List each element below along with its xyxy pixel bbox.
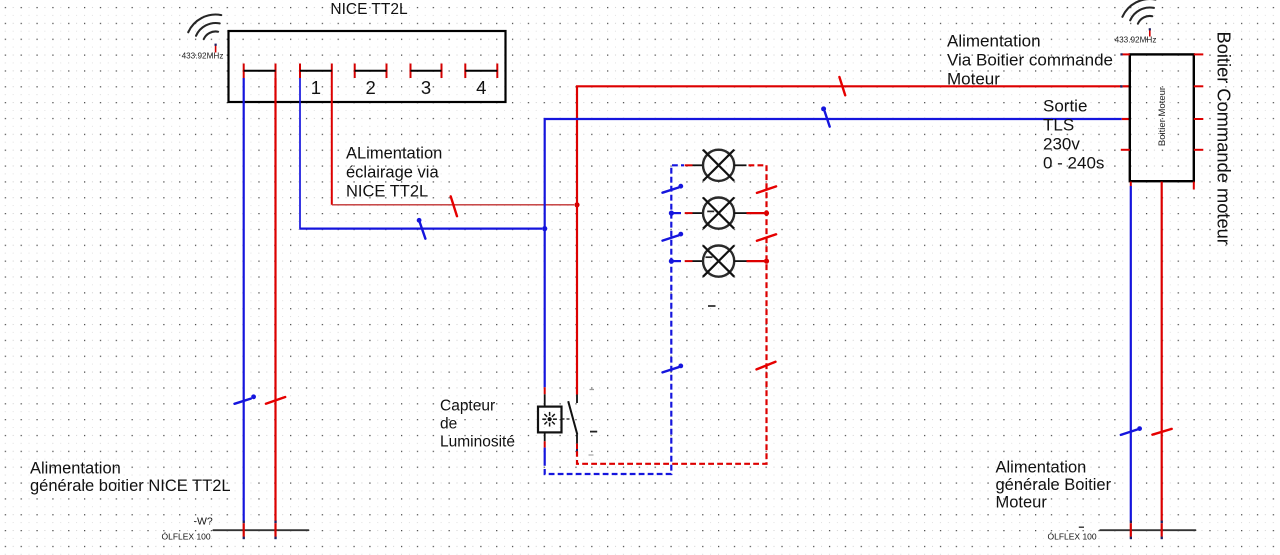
switch mark blue (bottom left) [235, 399, 251, 404]
svg-text:Moteur: Moteur [947, 70, 1000, 89]
terminal stub bottom right [1193, 182, 1195, 190]
wire red dashed return (switch to lamp bus) [577, 165, 767, 464]
node junction blue (544.7,228.6) [542, 226, 547, 231]
svg-text:433.92MHz: 433.92MHz [1115, 36, 1157, 45]
cable conductor mark red wire [274, 521, 276, 524]
terminal 2 [355, 64, 387, 99]
cable conductor mark red wire [1161, 521, 1163, 524]
switch mark blue (on wire y=228.6) [420, 222, 426, 239]
switch mark red R1 (lamp bus) [757, 186, 776, 193]
wire red main L (577,86.3) to motor box [577, 86, 1121, 394]
switch Q1 contact (sensor controlled) [576, 395, 578, 404]
wire blue terminal1 to sensor bus [299, 78, 301, 228]
switch pin marks [590, 389, 595, 391]
terminal stub right 3 [1194, 118, 1204, 120]
svg-text:230v: 230v [1043, 135, 1080, 154]
svg-text:Alimentation: Alimentation [996, 459, 1087, 477]
svg-text:NICE TT2L: NICE TT2L [330, 1, 408, 18]
lamp L1 [685, 150, 747, 181]
switch mark red R2 (lamp bus) [757, 234, 776, 241]
wire blue main (544.7,119) to motor box [545, 119, 1122, 387]
svg-text:ÓLFLEX 100: ÓLFLEX 100 [162, 532, 211, 542]
svg-text:ALimentation: ALimentation [346, 145, 442, 163]
terminal stub left lower [1121, 149, 1130, 151]
svg-text:Alimentation: Alimentation [947, 32, 1041, 51]
terminal pair 0 [244, 64, 276, 79]
svg-text:de: de [440, 416, 457, 433]
svg-text:1: 1 [311, 77, 321, 98]
switch mark red (bottom left) [266, 397, 285, 404]
wire blue supply motor (x=1130.8) [1130, 182, 1132, 186]
terminal stub left top [1122, 53, 1130, 55]
antenna A1 feed tick [215, 44, 217, 52]
terminal stub right 1 [1194, 53, 1204, 55]
svg-text:Boitier Moteur: Boitier Moteur [1157, 87, 1168, 146]
svg-text:Capteur: Capteur [440, 398, 495, 415]
node junction red lamp L3 [764, 259, 769, 264]
svg-text:générale boitier NICE TT2L: générale boitier NICE TT2L [30, 477, 231, 495]
cable conductor mark blue wire [243, 521, 245, 524]
wire blue supply NICE (vertical x=243.7) [243, 78, 245, 521]
antenna A2 feed tick [1149, 29, 1151, 37]
wire blue dashed return (sensor to lamp bus) [545, 165, 684, 474]
lamp L3 [671, 246, 764, 277]
terminal stub right 2 [1194, 85, 1204, 87]
wire red supply NICE (vertical x=275.5) [274, 78, 276, 521]
node junction red lamp L2 [764, 211, 769, 216]
svg-text:générale Boitier: générale Boitier [996, 476, 1112, 494]
box Boitier Moteur [1130, 54, 1194, 181]
svg-text:Via Boitier commande: Via Boitier commande [947, 51, 1113, 70]
cable W? left (ÖLFLEX 100) [213, 529, 308, 531]
node junction red (577,204.8) [574, 202, 579, 207]
node junction blue lamp L3 [669, 259, 674, 264]
cable right (ÖLFLEX 100) [1100, 529, 1195, 531]
svg-text:éclairage via: éclairage via [346, 164, 439, 182]
switch mechanical link (dashed) [562, 418, 572, 420]
svg-text:4: 4 [476, 77, 486, 98]
box NICE TT2L [229, 31, 506, 102]
svg-text:Alimentation: Alimentation [30, 460, 121, 478]
terminal stub right 4 [1194, 149, 1204, 151]
antenna A2 (right, 433.92MHz) [1122, 0, 1155, 24]
light sensor box (capteur) [538, 407, 562, 433]
wire sensor top terminal (red tick + black stub) [544, 387, 546, 394]
terminal 4 [465, 64, 497, 99]
svg-text:Moteur: Moteur [996, 494, 1048, 512]
switch mark blue S2 (lamp bus) [663, 235, 679, 240]
wire sensor bottom terminal (black + red tick + blue) [544, 432, 546, 441]
antenna A1 (left, 433.92MHz) [188, 15, 221, 40]
svg-text:NICE TT2L: NICE TT2L [346, 183, 428, 201]
svg-text:3: 3 [421, 77, 431, 98]
svg-text:433.92MHz: 433.92MHz [182, 52, 224, 61]
switch mark blue (bottom right) [1121, 430, 1137, 435]
mark minus below L3 [708, 305, 716, 307]
switch mark blue S1 (lamp bus) [663, 188, 679, 193]
switch mark red (on wire y=86.3) [839, 77, 845, 95]
sensor sun symbol [542, 412, 557, 427]
wire red terminal1 to lamp feed (thin) [331, 78, 333, 205]
svg-text:ÓLFLEX 100: ÓLFLEX 100 [1048, 532, 1097, 542]
svg-text:-W?: -W? [194, 516, 213, 528]
svg-text:Sortie: Sortie [1043, 97, 1087, 116]
cable conductor mark blue wire [1130, 521, 1132, 524]
switch mark red (on wire y=204.8) [451, 196, 457, 216]
node junction blue lamp L2 [669, 211, 674, 216]
label dash (right cable) [1079, 526, 1084, 528]
terminal 1 [300, 64, 332, 99]
lamp L2 [671, 198, 764, 229]
switch mark red (bottom right) [1152, 429, 1171, 435]
svg-text:TLS: TLS [1043, 116, 1074, 135]
wire red supply motor (x=1161.7) [1161, 182, 1163, 521]
svg-text:Boitier Commande moteur: Boitier Commande moteur [1214, 32, 1235, 245]
svg-text:2: 2 [365, 77, 375, 98]
svg-text:Luminosité: Luminosité [440, 434, 515, 451]
switch mark blue S3 (lamp bus) [663, 367, 679, 372]
switch mark blue (on wire y=119) [825, 112, 830, 127]
switch mark red R3 (lamp bus) [757, 362, 776, 370]
terminal 3 [411, 64, 442, 99]
svg-text:0 - 240s: 0 - 240s [1043, 154, 1104, 173]
